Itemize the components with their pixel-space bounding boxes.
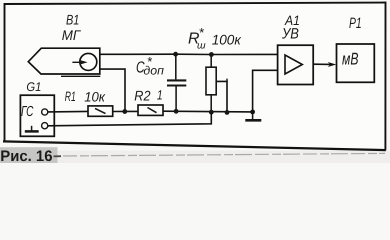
terminal of G1 (upper) bbox=[42, 109, 48, 115]
caption background patch bbox=[0, 147, 58, 163]
ground bbox=[245, 112, 261, 120]
svg-text:R2: R2 bbox=[134, 88, 150, 104]
resistor R1 bbox=[88, 106, 113, 116]
page strip below frame bbox=[0, 151, 390, 164]
node: junction of head lower wire with R1-R2 wire bbox=[122, 109, 127, 114]
arrow inside head B1 bbox=[72, 60, 87, 64]
border frame bbox=[3, 3, 386, 151]
terminal of G1 (lower) bbox=[42, 123, 48, 129]
svg-text:10к: 10к bbox=[84, 90, 105, 105]
wire: bottom rail from G1 lower terminal, rises to row at Rш bottom bbox=[48, 112, 212, 126]
node: wiper return junction bbox=[225, 110, 230, 115]
node: top rail to Cdop junction bbox=[173, 52, 178, 57]
wire: R1 to R2 bbox=[113, 110, 138, 112]
magnetic head B1 bbox=[28, 48, 100, 76]
svg-text:R1: R1 bbox=[65, 89, 76, 104]
wire: top rail from head to A1 input bbox=[100, 53, 278, 55]
wire: wiper corner overshoot bbox=[226, 79, 228, 82]
generator G1 box bbox=[20, 95, 54, 136]
dashed text remnants line bbox=[54, 155, 62, 157]
svg-text:100к: 100к bbox=[212, 31, 242, 47]
wire: head lower terminal down to R1/R2 junction bbox=[100, 69, 125, 112]
wire: A1 output arrow to P1 bbox=[313, 62, 336, 67]
svg-text:Р1: Р1 bbox=[349, 15, 362, 32]
svg-text:мВ: мВ bbox=[342, 49, 359, 68]
ground symbol inside G1 bbox=[25, 126, 39, 132]
node: ground / A1 lower input junction bbox=[250, 110, 255, 115]
capacitor Cdop bbox=[167, 54, 186, 111]
node: Cdop bottom to row junction bbox=[174, 109, 179, 114]
svg-text:В1: В1 bbox=[66, 11, 79, 27]
amplifier A1 box bbox=[278, 45, 314, 84]
millivoltmeter P1 box bbox=[337, 44, 375, 82]
node: Rш bottom and bottom-rail junction bbox=[209, 110, 214, 115]
svg-text:Рис. 16: Рис. 16 bbox=[0, 148, 52, 163]
svg-text:ГС: ГС bbox=[21, 104, 34, 120]
svg-text:ш: ш bbox=[197, 40, 206, 51]
resistor R2 bbox=[138, 105, 163, 115]
svg-text:G1: G1 bbox=[26, 80, 41, 94]
wire: A1 lower input from ground junction bbox=[253, 70, 278, 112]
amplifier triangle bbox=[285, 55, 302, 74]
svg-text:1: 1 bbox=[157, 88, 163, 103]
potentiometer Rш bbox=[206, 55, 216, 113]
svg-text:МГ: МГ bbox=[62, 27, 82, 43]
wire: G1 upper terminal to R1 bbox=[48, 110, 88, 113]
node: top rail to Rш junction bbox=[209, 52, 214, 57]
wire: R2 to ground row, continues to A1 lower input junction bbox=[163, 110, 253, 113]
wire: Rш wiper tap to row bbox=[216, 81, 227, 112]
svg-text:УВ: УВ bbox=[281, 26, 299, 43]
